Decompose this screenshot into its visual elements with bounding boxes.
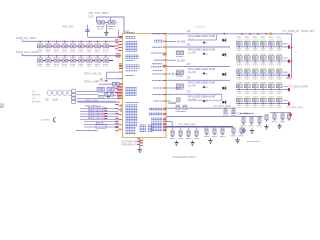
svg-text:FPGA DDR3 MEM 40-BIT: FPGA DDR3 MEM 40-BIT — [188, 82, 216, 85]
termination grid band 4 — [236, 83, 290, 94]
wire net row D — [166, 59, 176, 61]
svg-text:0.1uF: 0.1uF — [52, 98, 59, 101]
svg-text:DDR3_DQ_TERM: DDR3_DQ_TERM — [16, 37, 36, 40]
wire row for CG4 — [238, 116, 263, 118]
wire bracket — [107, 71, 123, 73]
svg-text:VDD_SPD_TERM: VDD_SPD_TERM — [88, 12, 108, 15]
capacitor C2 — [85, 29, 89, 31]
svg-text:M_A13: M_A13 — [172, 73, 180, 76]
svg-text:3R3: 3R3 — [187, 92, 192, 94]
svg-text:3R3: 3R3 — [187, 78, 192, 80]
svg-text:PLACE NEAR U1 BGA: PLACE NEAR U1 BGA — [172, 156, 196, 159]
svg-text:M_ODT: M_ODT — [177, 59, 186, 62]
termination grid band 1 — [236, 37, 290, 50]
diode D1 — [222, 39, 225, 42]
bottom faint label — [247, 141, 260, 143]
svg-text:M_BA2: M_BA2 — [172, 87, 181, 90]
bus ripper row G — [188, 99, 222, 101]
svg-text:3R1: 3R1 — [187, 31, 192, 33]
capacitor group CG2 — [204, 127, 225, 144]
IC U1 right pin connections — [163, 33, 167, 131]
svg-text:3R3: 3R3 — [187, 44, 192, 46]
svg-text:3R3: 3R3 — [187, 64, 192, 66]
stub row M_CS — [166, 100, 171, 102]
svg-text:U1A: U1A — [124, 29, 129, 33]
svg-text:VCC_AUX_PWR: VCC_AUX_PWR — [286, 106, 303, 109]
svg-text:VTT_DDR3_TERM: VTT_DDR3_TERM — [288, 87, 308, 89]
svg-text:FPGA DDR3 MEM 40-BIT: FPGA DDR3 MEM 40-BIT — [188, 96, 216, 99]
wire bundle — [80, 106, 118, 119]
IC U1 left pin names — [126, 33, 140, 134]
termination grid band 3 — [236, 68, 290, 79]
capacitor group CG4 — [241, 117, 262, 134]
svg-text:VTT_DDR_TERM: VTT_DDR_TERM — [231, 114, 249, 116]
IC U1 body — [123, 34, 167, 138]
wire — [87, 25, 89, 38]
wire net row A (top) — [166, 33, 292, 35]
svg-text:FPGA BANK 14: FPGA BANK 14 — [122, 144, 139, 147]
resistor R7 — [112, 82, 115, 86]
svg-text:VTT_PWR_GND: VTT_PWR_GND — [178, 124, 196, 126]
wire — [99, 83, 123, 85]
wire net row H — [166, 107, 236, 109]
wire bend — [166, 121, 172, 123]
termination resistor chain 2 — [37, 55, 113, 66]
small RC row G — [176, 97, 181, 99]
svg-text:x 100MHz: x 100MHz — [40, 119, 50, 121]
wire horizontal — [78, 101, 120, 103]
IC U1 left pin connections — [115, 36, 122, 131]
capacitor C40 — [264, 115, 268, 130]
wire bus 1 — [22, 40, 118, 42]
svg-text:FPGA DDR3 MEM 40-BIT: FPGA DDR3 MEM 40-BIT — [188, 68, 216, 71]
wire — [77, 90, 98, 92]
net name row CG4 — [240, 112, 254, 114]
wire — [77, 97, 98, 99]
R1 R2 labels — [97, 26, 104, 28]
svg-text:VTT_DDR_VREF: VTT_DDR_VREF — [213, 106, 232, 108]
svg-text:C,L,VR: C,L,VR — [188, 52, 196, 54]
IC U1 right pin names — [149, 34, 162, 131]
stub row M_BA — [166, 87, 171, 89]
resistor R1 R2 group — [97, 22, 119, 24]
svg-text:FPGA_JTAG: FPGA_JTAG — [85, 99, 98, 102]
green pin dots — [121, 105, 122, 106]
RC on row H — [176, 104, 181, 106]
diode D3 — [222, 101, 225, 104]
wire — [110, 17, 112, 21]
svg-text:A VREF: A VREF — [168, 102, 177, 105]
svg-text:FPGA_CFG_D1: FPGA_CFG_D1 — [88, 109, 105, 112]
bottom-left wires — [76, 122, 118, 131]
svg-text:VDD_SPD: VDD_SPD — [62, 25, 74, 28]
jumper pads row 1 — [48, 89, 76, 97]
svg-text:FPGA_CFG_D2: FPGA_CFG_D2 — [88, 112, 105, 115]
wire to U1 — [88, 36, 123, 38]
capacitor group CG3 — [231, 127, 244, 143]
wire net row B — [166, 41, 176, 43]
svg-text:M_CKE: M_CKE — [177, 41, 186, 44]
svg-text:FPGA DDR3 MEM 40-BIT: FPGA DDR3 MEM 40-BIT — [188, 48, 216, 51]
svg-text:FPGA_CLKIN: FPGA_CLKIN — [84, 80, 99, 83]
wire bus 2 — [22, 55, 118, 57]
svg-text:1V35: 1V35 — [88, 15, 94, 18]
svg-text:R57: R57 — [0, 107, 5, 109]
capacitor group CG1 — [170, 127, 199, 146]
svg-text:FPGA_CFG_D0: FPGA_CFG_D0 — [88, 106, 105, 109]
crystal circuit components — [97, 87, 100, 91]
faint label above row A — [196, 26, 205, 28]
bus ripper box row A — [188, 39, 217, 41]
GND bus bottom — [166, 126, 233, 128]
vertical wire right — [291, 34, 293, 78]
svg-text:FPGA_CFG_D3: FPGA_CFG_D3 — [88, 114, 105, 117]
termination grid band 2 — [236, 54, 290, 65]
svg-text:FPGA DDR3 MEM 40-BIT: FPGA DDR3 MEM 40-BIT — [188, 35, 216, 38]
divider caps on row H — [225, 108, 226, 109]
svg-text:FPGA_CFG_D4: FPGA_CFG_D4 — [88, 117, 105, 120]
svg-text:C,L,VR: C,L,VR — [188, 86, 196, 88]
svg-text:INIT_B: INIT_B — [96, 123, 104, 125]
termination resistor chain 1 — [37, 41, 115, 52]
IC U1 interior pin labels — [140, 125, 153, 131]
stub row M_A13 — [166, 73, 171, 75]
svg-text:C,L,VR: C,L,VR — [188, 72, 196, 74]
pin stack below U1 — [137, 139, 143, 147]
wire — [97, 17, 125, 34]
termination grid band 5 — [236, 97, 290, 108]
wire net row I — [166, 115, 262, 117]
svg-text:FPGA_OSC_EN: FPGA_OSC_EN — [84, 72, 102, 75]
wire row for CG5 — [270, 111, 291, 113]
ground below U1 — [139, 138, 141, 148]
svg-text:VTT_DDR3_NT_TERM_RP5: VTT_DDR3_NT_TERM_RP5 — [282, 30, 315, 33]
ground — [105, 24, 107, 30]
top wire junction dots — [241, 33, 272, 35]
capacitor group CG5 — [272, 112, 292, 128]
svg-text:DDR3_DQS_TERM: DDR3_DQS_TERM — [16, 51, 38, 54]
